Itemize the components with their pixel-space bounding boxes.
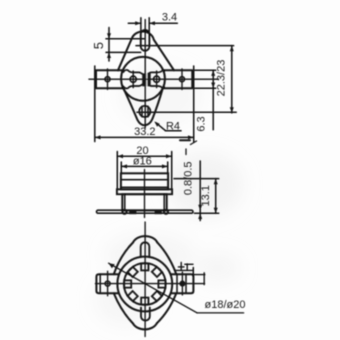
svg-text:33.2: 33.2	[134, 126, 155, 138]
dimension 6.3	[195, 70, 216, 131]
side view centerline	[144, 170, 146, 218]
bar hole right	[180, 69, 185, 90]
dimension 0.8/0.5	[183, 161, 203, 221]
svg-text:ø18/ø20: ø18/ø20	[205, 299, 246, 311]
bottom ear	[123, 88, 162, 125]
left arm bottom view	[96, 274, 118, 293]
small break tick	[180, 140, 197, 154]
vertical centerline top view	[144, 20, 146, 128]
terminal stub right	[155, 210, 162, 214]
dimension 5	[91, 28, 145, 62]
top moon edge	[123, 70, 164, 75]
small terminal dimension marks	[176, 262, 205, 284]
bottom view vertical centerline	[144, 222, 146, 337]
reference line bracket bottom	[195, 212, 219, 214]
left arm hole	[105, 271, 110, 296]
bracket rivet left	[123, 210, 127, 214]
body circle	[121, 57, 165, 101]
inner rivet left	[130, 71, 136, 88]
bottom view bottom ear slot	[141, 308, 150, 321]
right arm hole	[180, 272, 185, 295]
terminal stub left	[129, 210, 136, 214]
reference line slot center to 22.3 dim	[136, 45, 234, 47]
metal cap	[121, 173, 168, 189]
reference line bottom hole to 22.3 dim	[137, 111, 236, 113]
label R4 with leader	[154, 120, 181, 132]
bottom view horizontal centerline	[96, 283, 205, 285]
dimension diameter 16	[121, 156, 167, 174]
center contact block	[142, 73, 151, 86]
inner crimp circle	[124, 263, 166, 305]
dimension 22.3/23	[216, 46, 234, 113]
cap crimp rim	[117, 189, 172, 194]
top ear slot hole	[141, 30, 150, 51]
crimp tabs	[124, 263, 165, 304]
svg-text:5: 5	[91, 42, 106, 49]
bottom view top ear slot	[141, 242, 150, 257]
bracket diamond outline	[114, 236, 177, 329]
label diameter 18/20 with leader	[109, 263, 246, 313]
dimension 3.4	[128, 12, 177, 46]
svg-text:ø16: ø16	[133, 156, 152, 168]
dimension 13.1	[200, 179, 218, 214]
mounting bar (flange arms)	[96, 70, 192, 88]
reference line cap ridge	[174, 178, 219, 180]
outer can circle	[117, 257, 172, 312]
bracket rivet right	[164, 210, 168, 214]
bottom ear hole	[139, 106, 150, 117]
insulator base	[122, 194, 166, 210]
mounting bracket strip	[97, 210, 194, 213]
svg-text:R4: R4	[166, 120, 180, 132]
dimension 20	[117, 145, 171, 188]
svg-text:3.4: 3.4	[162, 12, 177, 24]
svg-text:13.1: 13.1	[200, 185, 212, 206]
dimension 33.2	[95, 66, 194, 142]
inner rivet right	[154, 71, 160, 88]
bar hole left	[105, 69, 110, 90]
horizontal centerline top view	[89, 78, 219, 80]
right arm bottom view	[172, 268, 194, 294]
bottom moon edge	[123, 84, 164, 89]
svg-text:0.8/0.5: 0.8/0.5	[183, 161, 195, 195]
svg-text:22.3/23: 22.3/23	[216, 60, 228, 97]
top ear	[118, 32, 174, 71]
svg-text:6.3: 6.3	[195, 116, 207, 131]
